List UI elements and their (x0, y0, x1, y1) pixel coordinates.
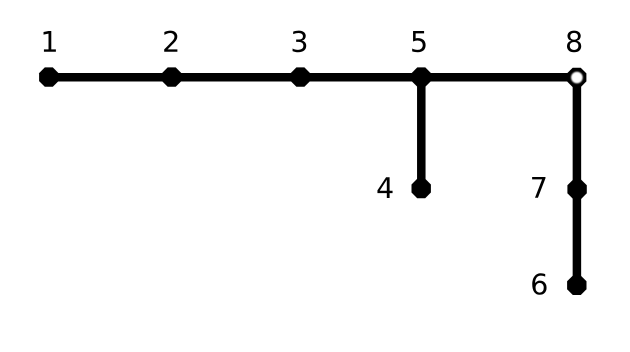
node 6 (567, 276, 586, 295)
label 1 (44, 31, 56, 52)
label 6 (532, 273, 546, 295)
label 8 (567, 31, 581, 53)
wire edge 5-8 (421, 73, 577, 82)
label 4 (377, 177, 392, 198)
node 5 (412, 67, 431, 86)
label 5 (412, 31, 425, 52)
wire edge 5-4 (417, 77, 426, 188)
wire edge 7-6 (573, 189, 582, 285)
node 8 (567, 68, 586, 87)
wire edge 3-5 (300, 73, 421, 82)
label 7 (532, 177, 545, 198)
node 7 (567, 180, 586, 199)
node 2 (162, 67, 181, 86)
wire edge 1-2 (49, 73, 172, 82)
node 4 (412, 179, 431, 198)
label 3 (293, 31, 307, 53)
label 2 (164, 31, 177, 52)
wire edge 2-3 (172, 73, 301, 82)
node 1 (39, 67, 58, 86)
wire edge 8-7 (573, 77, 582, 189)
node 3 (291, 67, 310, 86)
